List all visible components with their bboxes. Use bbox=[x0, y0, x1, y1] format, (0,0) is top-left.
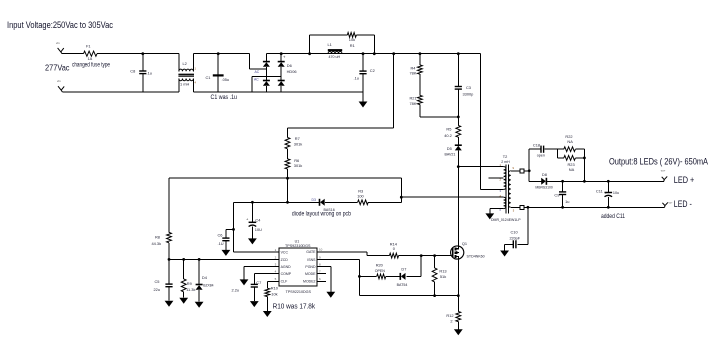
node: clamp/drain junction bbox=[457, 165, 460, 168]
transformer T2 primary winding bbox=[488, 163, 506, 193]
svg-text:MBRS3100: MBRS3100 bbox=[535, 185, 552, 189]
svg-text:40.2: 40.2 bbox=[444, 133, 452, 138]
ground: AGND bbox=[240, 279, 249, 285]
transformer T2 secondary winding bbox=[509, 166, 515, 213]
resistor R23 (parallel) bbox=[557, 149, 584, 172]
svg-text:100: 100 bbox=[357, 194, 364, 199]
diode D8 bbox=[535, 172, 562, 189]
svg-text:10k: 10k bbox=[271, 291, 277, 296]
label: transformer part bbox=[491, 218, 521, 222]
diode D4 (zener) bbox=[196, 259, 214, 301]
resistor R13 bbox=[432, 256, 446, 296]
ground: R9 bbox=[179, 298, 188, 304]
resistor R20 bbox=[359, 263, 385, 279]
svg-text:.1U: .1U bbox=[218, 241, 224, 246]
svg-text:2 mH: 2 mH bbox=[501, 160, 510, 164]
svg-text:ISNS: ISNS bbox=[307, 258, 316, 262]
text: output title bbox=[609, 156, 709, 167]
terminal VIN2 (277Vac neutral) bbox=[57, 79, 64, 92]
svg-text:C1 was .1u: C1 was .1u bbox=[211, 94, 238, 101]
svg-text:R10: R10 bbox=[271, 286, 279, 291]
svg-text:BAT54: BAT54 bbox=[397, 283, 408, 287]
svg-text:2: 2 bbox=[450, 318, 452, 323]
svg-text:TPS92310DGS: TPS92310DGS bbox=[285, 244, 311, 248]
svg-text:BZX84: BZX84 bbox=[203, 284, 213, 288]
svg-text:D7: D7 bbox=[401, 266, 406, 271]
wire: R6 to D3 line bbox=[286, 177, 289, 204]
svg-text:open: open bbox=[537, 153, 545, 157]
svg-text:C6: C6 bbox=[218, 233, 223, 238]
capacitor C2 bbox=[354, 54, 375, 92]
svg-text:220pF: 220pF bbox=[510, 236, 521, 240]
wire: secondary bottom stub bbox=[511, 205, 528, 209]
wire: AC2 stub to bridge bbox=[252, 76, 281, 92]
svg-text:VCC: VCC bbox=[281, 251, 289, 255]
svg-text:44.3k: 44.3k bbox=[152, 241, 162, 246]
resistor R9 bbox=[181, 259, 195, 297]
wire: source sense bottom line bbox=[359, 294, 459, 297]
svg-text:C2: C2 bbox=[370, 68, 375, 73]
svg-text:10u: 10u bbox=[613, 191, 619, 195]
svg-text:MODE: MODE bbox=[305, 272, 316, 276]
svg-text:C5: C5 bbox=[155, 279, 160, 284]
svg-text:added C11: added C11 bbox=[601, 213, 625, 220]
capacitor C7 bbox=[232, 274, 280, 301]
wire: secondary top stub bbox=[511, 169, 531, 173]
resistor R5 bbox=[444, 117, 461, 138]
terminal VIN1 (277Vac hot) bbox=[56, 41, 64, 54]
svg-text:vin: vin bbox=[56, 41, 60, 45]
svg-text:R20: R20 bbox=[376, 263, 384, 268]
capacitor C4 (polarized) bbox=[246, 202, 262, 238]
ground: PGND bbox=[326, 292, 335, 298]
svg-text:LED -: LED - bbox=[674, 199, 692, 209]
svg-text:Q1: Q1 bbox=[462, 241, 467, 246]
svg-text:TPS92210DGS: TPS92210DGS bbox=[286, 290, 312, 294]
resistor R3 bbox=[357, 188, 401, 204]
terminal LED+ bbox=[661, 168, 667, 181]
svg-text:T2: T2 bbox=[503, 154, 508, 159]
ground: C6 bbox=[222, 250, 231, 256]
capacitor C10 bbox=[505, 207, 528, 250]
capacitor C18 bbox=[533, 142, 558, 157]
wire: VCC to pin1 bbox=[234, 251, 280, 253]
transistor Q1 (MOSFET) bbox=[451, 241, 485, 259]
svg-text:C11: C11 bbox=[596, 188, 603, 193]
svg-text:1A: 1A bbox=[88, 56, 93, 61]
svg-text:R12: R12 bbox=[446, 313, 453, 318]
svg-text:R5: R5 bbox=[446, 127, 451, 132]
capacitor C9 bbox=[554, 181, 569, 207]
ground: C7 bbox=[250, 301, 259, 307]
svg-text:R13: R13 bbox=[439, 269, 446, 274]
wire: secondary top to D8 bbox=[529, 171, 541, 182]
svg-text:COMP: COMP bbox=[281, 272, 292, 276]
svg-text:R1: R1 bbox=[350, 43, 355, 48]
capacitor C5 bbox=[154, 259, 173, 300]
svg-text:78K: 78K bbox=[410, 71, 417, 76]
svg-text:D5: D5 bbox=[447, 146, 452, 151]
wire: VIN1 to fuse F1 bbox=[62, 53, 84, 55]
wire: GATE pin to R14 bbox=[317, 252, 389, 256]
wire: PGND bbox=[317, 267, 331, 292]
capacitor C8 bbox=[130, 54, 152, 92]
ground: C10 bbox=[500, 251, 509, 257]
wire: AGND bbox=[244, 267, 279, 280]
svg-text:.1u: .1u bbox=[147, 71, 152, 76]
svg-text:301k: 301k bbox=[294, 163, 302, 168]
resistor R8 bbox=[152, 232, 172, 259]
svg-text:C1: C1 bbox=[206, 75, 211, 80]
svg-text:BAS16: BAS16 bbox=[324, 208, 335, 212]
wire: ISNS pin line bbox=[317, 260, 361, 296]
svg-text:R7: R7 bbox=[295, 136, 300, 141]
wire: ZCD node line bbox=[168, 258, 280, 261]
svg-text:10U: 10U bbox=[255, 227, 262, 232]
svg-text:R10 was 17.8k: R10 was 17.8k bbox=[273, 304, 316, 311]
ground: C4 bbox=[248, 238, 257, 244]
resistor R22 bbox=[557, 134, 584, 152]
wire: Q1 source bbox=[457, 259, 459, 296]
svg-text:vo-: vo- bbox=[669, 200, 673, 204]
svg-text:R8: R8 bbox=[155, 235, 160, 240]
capacitor C6 bbox=[218, 229, 234, 250]
resistor R6 bbox=[285, 149, 302, 178]
svg-text:D3: D3 bbox=[312, 198, 316, 202]
svg-text:D4: D4 bbox=[202, 275, 208, 280]
svg-text:Input Voltage:250Vac to 305Vac: Input Voltage:250Vac to 305Vac bbox=[7, 20, 113, 31]
svg-text:R22: R22 bbox=[565, 134, 572, 139]
wire: D7 up to gate line bbox=[420, 256, 422, 277]
svg-text:10: 10 bbox=[319, 248, 323, 252]
text: LED - bbox=[674, 199, 692, 209]
wire: VCC riser junction bbox=[232, 228, 235, 231]
inductor L2 (common-mode choke) bbox=[178, 54, 196, 92]
svg-text:GATE: GATE bbox=[306, 250, 316, 254]
wire: R21 to C3 node bbox=[420, 116, 458, 118]
capacitor C3 bbox=[455, 54, 474, 119]
svg-text:DMR_0124EW1LP: DMR_0124EW1LP bbox=[491, 218, 521, 222]
op-amp U1 TPS92210 controller box bbox=[279, 239, 317, 293]
svg-text:vo+: vo+ bbox=[661, 168, 666, 172]
label D6 HD06 bbox=[283, 54, 297, 74]
svg-text:R3: R3 bbox=[358, 188, 363, 193]
IC U1 pins bbox=[271, 248, 327, 284]
resistor R10 bbox=[265, 281, 279, 311]
resistor R14 bbox=[389, 241, 398, 258]
note: C1 was .1u bbox=[211, 94, 238, 101]
svg-text:3300p: 3300p bbox=[463, 92, 474, 97]
wire: D3 line left corner bbox=[233, 202, 235, 252]
svg-text:PGND: PGND bbox=[305, 265, 316, 269]
diode D5 bbox=[445, 137, 462, 166]
svg-text:+: + bbox=[605, 191, 607, 195]
svg-text:LED +: LED + bbox=[674, 175, 695, 185]
svg-text:.05u: .05u bbox=[222, 77, 230, 82]
terminal LED- bbox=[662, 200, 672, 207]
svg-text:51k: 51k bbox=[440, 274, 446, 279]
svg-text:NA: NA bbox=[569, 167, 575, 172]
svg-text:R9: R9 bbox=[187, 281, 192, 286]
svg-text:L2: L2 bbox=[183, 61, 187, 66]
svg-text:D8: D8 bbox=[542, 172, 547, 177]
svg-text:Output:8 LEDs ( 26V)- 650mA: Output:8 LEDs ( 26V)- 650mA bbox=[609, 156, 709, 167]
ground: D4 bbox=[195, 302, 204, 308]
svg-text:277Vac: 277Vac bbox=[45, 63, 70, 73]
wire: LED+ line bbox=[561, 180, 664, 183]
resistor R4 bbox=[410, 54, 423, 76]
svg-text:OPEN: OPEN bbox=[375, 269, 386, 273]
wire: primary top bbox=[458, 166, 503, 168]
diode bridge D6 column 2 lower bbox=[278, 81, 285, 93]
svg-text:AC: AC bbox=[254, 78, 259, 82]
svg-text:ZCD: ZCD bbox=[281, 258, 289, 262]
wire: aux line corner down bbox=[400, 178, 403, 202]
fuse F1 bbox=[84, 44, 98, 61]
note: changed fuse type bbox=[72, 62, 110, 69]
resistor R21 bbox=[410, 74, 423, 117]
svg-text:78K: 78K bbox=[410, 101, 417, 106]
wire: DC+ rail bbox=[266, 52, 480, 55]
resistor R7 bbox=[285, 128, 302, 149]
capacitor C1 bbox=[206, 54, 230, 92]
diode bridge D6 column 1 upper bbox=[263, 54, 270, 80]
text: LED + bbox=[674, 175, 695, 185]
svg-text:diode layout wrong on pcb: diode layout wrong on pcb bbox=[292, 211, 351, 218]
wire: aux line down to R8 bbox=[168, 178, 170, 232]
wire: R14 to MOSFET gate bbox=[399, 254, 451, 257]
ground: C5 bbox=[165, 301, 174, 307]
svg-text:C10: C10 bbox=[511, 229, 519, 234]
wire: L2 to AC corner (top) bbox=[193, 52, 249, 55]
svg-text:470 uH: 470 uH bbox=[329, 55, 341, 59]
svg-text:2.2u: 2.2u bbox=[232, 287, 240, 292]
note: diode layout wrong on pcb bbox=[292, 211, 351, 218]
svg-text:D6: D6 bbox=[287, 63, 292, 68]
svg-text:L1: L1 bbox=[328, 42, 332, 47]
svg-text:R4: R4 bbox=[411, 65, 417, 70]
note: added C11 bbox=[601, 213, 625, 220]
capacitor C11 (polarized) bbox=[596, 181, 619, 207]
svg-text:C18: C18 bbox=[533, 142, 540, 147]
svg-text:.1u: .1u bbox=[354, 76, 359, 81]
diode D7 bbox=[386, 266, 421, 286]
svg-text:AGND: AGND bbox=[281, 265, 292, 269]
svg-text:C9: C9 bbox=[554, 193, 559, 198]
wire: D3 line bbox=[234, 201, 319, 204]
svg-text:11.3k: 11.3k bbox=[186, 287, 195, 292]
svg-text:22u: 22u bbox=[154, 287, 161, 292]
diode bridge D6 column 2 upper bbox=[278, 54, 285, 80]
ground: R10 bbox=[263, 311, 272, 317]
svg-text:STD4NK60: STD4NK60 bbox=[467, 254, 485, 258]
svg-text:changed fuse type: changed fuse type bbox=[72, 62, 110, 69]
svg-text:MODE2: MODE2 bbox=[303, 280, 316, 284]
svg-text:10k: 10k bbox=[349, 37, 355, 42]
wire: rail down to primary bottom bbox=[481, 54, 504, 190]
wire: bottom rail under bridge bbox=[193, 91, 362, 93]
diode D3 bbox=[312, 198, 358, 212]
svg-text:C8: C8 bbox=[130, 69, 135, 74]
svg-text:C3: C3 bbox=[466, 85, 471, 90]
svg-text:F1: F1 bbox=[86, 44, 91, 49]
note: R10 was 17.8k bbox=[273, 304, 316, 311]
svg-text:HD06: HD06 bbox=[287, 69, 297, 74]
wire: bottom rail VIN2 to ground node bbox=[62, 91, 178, 93]
wire: aux top line bbox=[401, 196, 503, 198]
wire: drain vertical bbox=[457, 167, 459, 247]
ground: aux winding bbox=[485, 213, 494, 219]
text: 277Vac bbox=[45, 63, 70, 73]
svg-text:1u: 1u bbox=[565, 199, 569, 204]
svg-text:U1: U1 bbox=[295, 239, 300, 243]
transformer T2 core bbox=[501, 154, 510, 213]
svg-text:CLF: CLF bbox=[281, 280, 288, 284]
svg-text:AC: AC bbox=[255, 70, 260, 74]
svg-text:BAV21: BAV21 bbox=[445, 152, 456, 156]
svg-text:C7: C7 bbox=[256, 280, 261, 285]
ground: R12 bbox=[454, 329, 463, 335]
text: input voltage title bbox=[7, 20, 113, 31]
wire: rail to R7 bbox=[288, 54, 394, 128]
resistor R1 (bypass) bbox=[310, 33, 375, 54]
svg-text:1 mH: 1 mH bbox=[180, 81, 189, 86]
wire: snubber riser bbox=[529, 149, 540, 171]
wire: snubber return bbox=[583, 149, 586, 183]
wire: aux sense line bbox=[169, 177, 401, 179]
diode bridge D6 column 1 lower bbox=[263, 81, 270, 93]
transformer T2 aux winding bbox=[500, 194, 506, 212]
wire: fuse to L2 bbox=[97, 52, 179, 55]
ground: C2 / bridge negative bbox=[359, 92, 368, 108]
svg-text:R6: R6 bbox=[294, 158, 299, 163]
svg-text:NA: NA bbox=[567, 139, 573, 144]
svg-text:C4: C4 bbox=[255, 217, 261, 222]
wire: LED- line bbox=[527, 206, 665, 209]
inductor L1 bbox=[328, 42, 343, 59]
wire: AC1 stub to bridge bbox=[250, 54, 267, 74]
wire: aux bottom to ground bbox=[490, 209, 504, 214]
svg-text:301k: 301k bbox=[294, 142, 302, 147]
svg-text:vin: vin bbox=[57, 79, 61, 83]
resistor R12 (sense) bbox=[446, 296, 460, 330]
